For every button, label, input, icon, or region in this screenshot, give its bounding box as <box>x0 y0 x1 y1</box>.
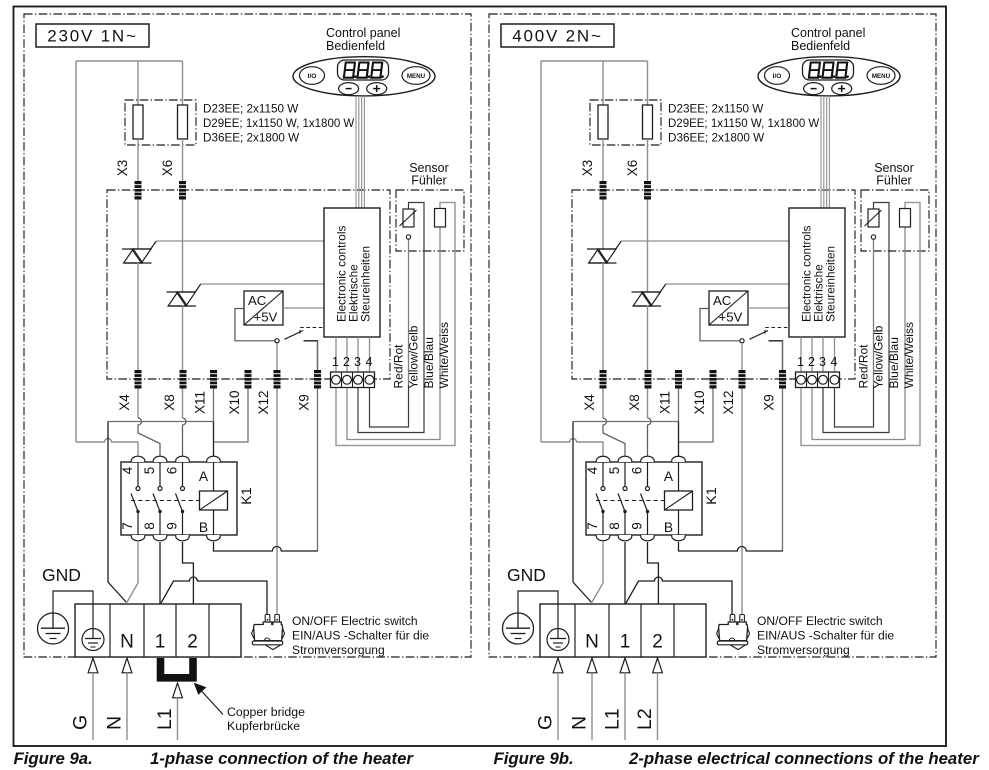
dashed control link to switch <box>300 328 334 338</box>
svg-text:GND: GND <box>42 565 81 585</box>
wire connector X9 down <box>782 341 784 551</box>
wire T2 gate to controls <box>666 283 789 285</box>
connector X9 <box>779 370 786 389</box>
wire terminal3 to sensor S1 (yellow) <box>358 203 424 433</box>
earth terminal symbol <box>82 604 104 651</box>
svg-text:1: 1 <box>332 355 339 369</box>
wire pin7 to terminal N <box>127 542 138 603</box>
triac T1 <box>122 248 151 250</box>
wire supply L2 <box>657 673 659 740</box>
wire pin9 to terminal 2 with hop <box>648 542 659 604</box>
connector X8 <box>645 370 652 389</box>
svg-text:2: 2 <box>808 355 815 369</box>
svg-text:9: 9 <box>165 522 180 530</box>
wire control bus X8-X11-X10 <box>573 421 679 423</box>
wire to element E2 <box>182 61 184 105</box>
wire U1 to strip terminal 1 <box>335 337 337 372</box>
wire T2 to connector X8 <box>647 306 649 419</box>
svg-text:3: 3 <box>354 355 361 369</box>
arrow supply N <box>122 658 132 673</box>
svg-text:2: 2 <box>652 632 663 653</box>
svg-text:1: 1 <box>797 355 804 369</box>
wire pin8 to terminal 1 <box>159 542 161 604</box>
svg-text:X9: X9 <box>762 394 777 411</box>
svg-text:Red/Rot: Red/Rot <box>857 344 871 389</box>
wire U1 to strip terminal 3 <box>822 337 824 372</box>
wire switch to connector X9 <box>769 341 783 371</box>
relay pin bump top 5 <box>153 456 167 462</box>
svg-text:X11: X11 <box>193 391 208 414</box>
wire left supply drop <box>540 61 542 442</box>
terminal circle 1 <box>797 375 806 384</box>
wire supply to relay pin 4 with hop <box>541 439 603 456</box>
svg-text:6: 6 <box>630 467 645 475</box>
relay actuation dashed link <box>131 500 200 502</box>
wire supply G <box>92 673 94 740</box>
svg-text:X12: X12 <box>721 390 736 414</box>
svg-text:ON/OFF Electric switch: ON/OFF Electric switch <box>292 614 418 628</box>
svg-text:N: N <box>120 632 134 653</box>
relay pin bump bottom B <box>672 535 686 541</box>
wire ground to terminal block <box>518 591 558 613</box>
svg-text:Figure 9a.: Figure 9a. <box>14 749 93 768</box>
terminal block dividers <box>575 604 674 657</box>
svg-text:D29EE; 1x1150 W, 1x1800 W: D29EE; 1x1150 W, 1x1800 W <box>668 118 819 130</box>
svg-text:+5V: +5V <box>254 310 278 325</box>
I/O button <box>300 67 325 85</box>
wire T2 gate to controls <box>201 283 324 285</box>
connector X6 <box>644 181 651 200</box>
wire terminal 1 to ON/OFF switch <box>161 577 267 615</box>
svg-text:X8: X8 <box>162 394 177 411</box>
wire terminal 1 to ON/OFF switch <box>626 577 732 615</box>
earth terminal symbol <box>547 604 569 651</box>
relay pin bump bottom 9 <box>176 535 190 541</box>
relay pin bump top A <box>207 456 221 462</box>
wire terminal3 to sensor S1 (yellow) <box>823 203 889 433</box>
svg-text:4: 4 <box>831 355 838 369</box>
svg-text:Stromversorgung: Stromversorgung <box>292 643 385 657</box>
terminal circle 2 <box>343 375 352 384</box>
heating element E1 <box>598 105 608 139</box>
wire pin8 to terminal 1 <box>624 542 626 604</box>
wire pin7 to terminal N <box>592 542 603 603</box>
display window <box>803 60 854 80</box>
minus button <box>339 83 359 95</box>
wire bus to relay coil A <box>213 422 215 457</box>
relay contact 3 <box>176 462 185 535</box>
control panel cable bundle <box>356 96 364 208</box>
svg-text:D29EE; 1x1150 W, 1x1800 W: D29EE; 1x1150 W, 1x1800 W <box>203 118 354 130</box>
svg-text:AC: AC <box>713 293 732 308</box>
svg-text:L1: L1 <box>602 708 624 730</box>
svg-text:ON/OFF Electric switch: ON/OFF Electric switch <box>757 614 883 628</box>
heater elements dash-dot box <box>125 100 196 145</box>
heating element E2 <box>643 105 653 139</box>
svg-text:X4: X4 <box>117 394 132 411</box>
wire U1 to strip terminal 3 <box>357 337 359 372</box>
svg-text:X3: X3 <box>115 160 130 177</box>
wire E1 to triac T1 <box>137 139 139 249</box>
connector X12 <box>274 370 281 389</box>
wire AC to switch node <box>235 309 275 341</box>
svg-text:5: 5 <box>142 467 157 475</box>
svg-text:8: 8 <box>142 522 157 530</box>
ground symbol <box>503 613 534 644</box>
arrow supply L1 <box>620 658 630 673</box>
terminal circle 3 <box>354 375 363 384</box>
connector X10 <box>710 370 717 389</box>
wire X10 to coil feed <box>214 389 248 443</box>
switch base plate <box>717 641 747 645</box>
sensor dash-dot box <box>396 190 464 251</box>
connector X6 <box>179 181 186 200</box>
arrow supply G <box>553 658 563 673</box>
svg-text:L1: L1 <box>154 708 176 730</box>
node switch junction <box>740 339 744 343</box>
connector X10 <box>245 370 252 389</box>
relay pin bump top 4 <box>596 456 610 462</box>
control panel bezel <box>758 57 900 96</box>
relay K1 box <box>121 462 237 535</box>
relay pin bump bottom 7 <box>596 535 610 541</box>
terminal block body <box>75 604 241 657</box>
electronic switch blade <box>285 331 304 340</box>
inner electronics dash-dot boundary <box>572 190 855 379</box>
svg-text:White/Weiss: White/Weiss <box>437 322 451 388</box>
7-segment digits 8.8.8 <box>344 63 359 79</box>
wire top supply bus <box>541 60 648 62</box>
switch rocker <box>731 645 746 650</box>
connector X11 <box>210 370 217 389</box>
electronic controls unit U1 <box>789 208 845 337</box>
svg-text:X4: X4 <box>582 394 597 411</box>
wire connector X9 down <box>317 341 319 551</box>
svg-text:Kupferbrücke: Kupferbrücke <box>227 719 300 733</box>
wire AC to controls <box>748 307 789 309</box>
wire supply G <box>557 673 559 740</box>
svg-text:Blue/Blau: Blue/Blau <box>887 337 901 388</box>
wire X8 hop and to relay pin 6 <box>183 418 187 456</box>
relay contact 2 <box>153 462 162 535</box>
relay pin bump top 6 <box>641 456 655 462</box>
wire to element E2 <box>647 61 649 105</box>
wire terminal2 to sensor S2 (blue) <box>347 227 440 440</box>
wire X8 hop and to relay pin 6 <box>648 418 652 456</box>
svg-text:Steureinheiten: Steureinheiten <box>824 246 838 322</box>
svg-text:G: G <box>70 715 92 730</box>
wire terminal4 to sensor S1 (red) <box>835 385 874 427</box>
relay contact 2 <box>618 462 627 535</box>
arrow supply L1 <box>173 683 183 698</box>
svg-text:X6: X6 <box>625 160 640 177</box>
relay pin bump bottom 9 <box>641 535 655 541</box>
wire X4 hop and to relay pin 5 <box>603 418 625 456</box>
MENU button <box>867 67 895 85</box>
wire E2 to triac T2 <box>182 139 184 292</box>
relay pin bump bottom 7 <box>131 535 145 541</box>
plus button <box>367 83 387 95</box>
svg-text:GND: GND <box>507 565 546 585</box>
triac T2 <box>167 291 196 293</box>
svg-text:Bedienfeld: Bedienfeld <box>791 39 850 53</box>
connector X11 <box>675 370 682 389</box>
arrow supply G <box>88 658 98 673</box>
copper bridge annotation arrow <box>201 691 223 715</box>
wire X10 to coil feed <box>679 389 713 443</box>
svg-text:Yellow/Gelb: Yellow/Gelb <box>407 325 421 388</box>
wire AC to controls <box>283 307 324 309</box>
svg-text:A: A <box>664 469 674 484</box>
svg-text:Figure 9b.: Figure 9b. <box>494 749 574 768</box>
svg-text:Copper bridge: Copper bridge <box>227 705 305 719</box>
svg-text:N: N <box>569 716 591 730</box>
sensor S1 thermistor <box>403 209 414 227</box>
svg-text:Control panel: Control panel <box>791 26 865 40</box>
connector X4 <box>600 370 607 389</box>
svg-text:Yellow/Gelb: Yellow/Gelb <box>872 325 886 388</box>
svg-text:B: B <box>664 520 673 535</box>
svg-text:X8: X8 <box>627 394 642 411</box>
wire X4 hop and to relay pin 5 <box>138 418 160 456</box>
svg-text:L2: L2 <box>634 708 656 730</box>
wire bus to relay coil A <box>678 422 680 457</box>
wire supply N <box>126 673 128 740</box>
svg-text:N: N <box>104 716 126 730</box>
relay K1 box <box>586 462 702 535</box>
terminal circle 3 <box>819 375 828 384</box>
wire terminal1 to sensor S2 (white) <box>801 203 920 446</box>
svg-text:X10: X10 <box>692 390 707 414</box>
wire coil B to X9 with hop <box>679 542 783 551</box>
7-segment digits 8.8.8 <box>809 63 824 79</box>
plus button <box>832 83 852 95</box>
svg-text:I/O: I/O <box>773 73 782 80</box>
heater elements dash-dot box <box>590 100 661 145</box>
svg-text:7: 7 <box>120 522 135 530</box>
svg-text:EIN/AUS -Schalter für die: EIN/AUS -Schalter für die <box>757 629 894 643</box>
terminal block body <box>540 604 706 657</box>
triac T1 <box>587 248 616 250</box>
svg-text:Steureinheiten: Steureinheiten <box>359 246 373 322</box>
terminal circle 4 <box>365 375 374 384</box>
control panel bezel <box>293 57 435 96</box>
svg-text:MENU: MENU <box>872 73 891 80</box>
wire T1 to connector X4 <box>602 263 604 418</box>
wire supply N <box>591 673 593 740</box>
wire X11 to bus <box>678 389 680 422</box>
arrow supply N <box>587 658 597 673</box>
wire control bus X8-X11-X10 <box>108 421 214 423</box>
relay contact 1 <box>131 462 140 535</box>
svg-text:X6: X6 <box>160 160 175 177</box>
wire U1 to strip terminal 4 <box>369 337 371 372</box>
relay pin bump bottom 8 <box>153 535 167 541</box>
wire U1 to strip terminal 2 <box>346 337 348 372</box>
relay pin bump top 5 <box>618 456 632 462</box>
terminal circle 2 <box>808 375 817 384</box>
svg-text:White/Weiss: White/Weiss <box>902 322 916 388</box>
svg-text:9: 9 <box>630 522 645 530</box>
wire X11 to bus <box>213 389 215 422</box>
svg-text:2: 2 <box>343 355 350 369</box>
connector X9 <box>314 370 321 389</box>
relay contact 1 <box>596 462 605 535</box>
connector X8 <box>180 370 187 389</box>
svg-text:D23EE; 2x1150 W: D23EE; 2x1150 W <box>203 103 298 116</box>
terminal strip dividers <box>342 372 364 388</box>
svg-text:4: 4 <box>585 466 600 474</box>
svg-text:1: 1 <box>620 632 631 653</box>
switch base plate <box>252 641 282 645</box>
copper bridge terminals 1-2 <box>161 658 194 678</box>
svg-text:2-phase electrical connections: 2-phase electrical connections of the he… <box>628 749 980 768</box>
svg-text:X11: X11 <box>658 391 673 414</box>
wire supply to relay pin 4 with hop <box>76 439 138 456</box>
sensor S2 <box>900 209 911 228</box>
heating element E1 <box>133 105 143 139</box>
relay coil <box>200 491 228 510</box>
wire terminal1 to sensor S2 (white) <box>336 203 455 446</box>
svg-text:D36EE; 2x1800 W: D36EE; 2x1800 W <box>668 132 764 145</box>
svg-text:D23EE; 2x1150 W: D23EE; 2x1150 W <box>668 103 763 116</box>
wire supply L1 <box>177 698 179 740</box>
minus button <box>804 83 824 95</box>
svg-text:B: B <box>199 520 208 535</box>
svg-text:7: 7 <box>585 522 600 530</box>
connector X4 <box>135 370 142 389</box>
wire coil B to X9 with hop <box>214 542 318 551</box>
wire T1 gate to controls <box>621 240 789 242</box>
wire E2 to triac T2 <box>647 139 649 292</box>
svg-text:Control panel: Control panel <box>326 26 400 40</box>
svg-text:Bedienfeld: Bedienfeld <box>326 39 385 53</box>
svg-text:400V 2N~: 400V 2N~ <box>512 27 603 46</box>
switch rocker <box>266 645 281 650</box>
svg-text:5: 5 <box>607 467 622 475</box>
sensor S2 <box>435 209 446 228</box>
connector X3 <box>600 181 607 200</box>
wire terminal4 to sensor S1 (red) <box>370 385 409 427</box>
wire terminal2 to sensor S2 (blue) <box>812 227 905 440</box>
svg-text:I/O: I/O <box>308 73 317 80</box>
terminal block dividers <box>110 604 209 657</box>
terminal circle 4 <box>830 375 839 384</box>
connector X12 <box>739 370 746 389</box>
svg-text:8: 8 <box>607 522 622 530</box>
svg-text:1: 1 <box>155 632 166 653</box>
wire node to connector X12 <box>741 343 743 615</box>
sensor S1 thermistor <box>868 209 879 227</box>
wire left supply drop <box>75 61 77 442</box>
panel b dash-dot border <box>489 14 936 657</box>
svg-text:Red/Rot: Red/Rot <box>392 344 406 389</box>
svg-text:1-phase connection of the heat: 1-phase connection of the heater <box>150 749 414 768</box>
wire U1 to strip terminal 1 <box>800 337 802 372</box>
heating element E2 <box>178 105 188 139</box>
svg-text:Fühler: Fühler <box>876 174 911 188</box>
connector X3 <box>135 181 142 200</box>
wire U1 to strip terminal 2 <box>811 337 813 372</box>
ON/OFF rocker switch icon <box>265 615 270 625</box>
terminal circle 1 <box>332 375 341 384</box>
control panel cable bundle <box>821 96 829 208</box>
wire switch to connector X9 <box>304 341 318 371</box>
arrow supply L2 <box>653 658 663 673</box>
inner electronics dash-dot boundary <box>107 190 390 379</box>
svg-text:K1: K1 <box>239 487 255 504</box>
svg-text:EIN/AUS -Schalter für die: EIN/AUS -Schalter für die <box>292 629 429 643</box>
AC +5V converter <box>244 291 283 325</box>
svg-text:AC: AC <box>248 293 267 308</box>
wire T1 gate to controls <box>156 240 324 242</box>
wire top supply bus <box>76 60 183 62</box>
terminal strip X13 body <box>331 372 375 388</box>
svg-text:2: 2 <box>187 632 198 653</box>
relay pin bump top 6 <box>176 456 190 462</box>
svg-text:3: 3 <box>819 355 826 369</box>
wire node to connector X12 <box>276 343 278 615</box>
triac T2 <box>632 291 661 293</box>
relay actuation dashed link <box>596 500 665 502</box>
wire to element E1 <box>602 61 604 105</box>
wire T2 to connector X8 <box>182 306 184 419</box>
wire coil feeds <box>213 462 215 491</box>
relay pin bump bottom B <box>207 535 221 541</box>
svg-text:X3: X3 <box>580 160 595 177</box>
svg-text:A: A <box>199 469 209 484</box>
electronic controls unit U1 <box>324 208 380 337</box>
wire pin9 to terminal 2 with hop <box>183 542 194 604</box>
svg-text:N: N <box>585 632 599 653</box>
svg-text:X9: X9 <box>297 394 312 411</box>
wire bus down to terminal N <box>108 422 127 603</box>
terminal strip dividers <box>807 372 829 388</box>
AC +5V converter <box>709 291 748 325</box>
svg-text:MENU: MENU <box>407 73 426 80</box>
ground symbol <box>38 613 69 644</box>
I/O button <box>765 67 790 85</box>
svg-text:D36EE; 2x1800 W: D36EE; 2x1800 W <box>203 132 299 145</box>
svg-text:G: G <box>535 715 557 730</box>
display window <box>338 60 389 80</box>
svg-text:4: 4 <box>120 466 135 474</box>
voltage title box 400V 2N~ <box>501 24 614 47</box>
wire T1 to connector X4 <box>137 263 139 418</box>
wire supply L1 <box>624 673 626 740</box>
terminal strip X13 body <box>796 372 840 388</box>
ON/OFF rocker switch icon <box>730 615 735 625</box>
svg-text:Blue/Blau: Blue/Blau <box>422 337 436 388</box>
wire to element E1 <box>137 61 139 105</box>
wire ground to terminal block <box>53 591 93 613</box>
relay pin bump top 4 <box>131 456 145 462</box>
wire E1 to triac T1 <box>602 139 604 249</box>
svg-text:Fühler: Fühler <box>411 174 446 188</box>
electronic switch blade <box>750 331 769 340</box>
wire AC to switch node <box>700 309 740 341</box>
wire coil feeds <box>678 462 680 491</box>
svg-text:230V 1N~: 230V 1N~ <box>47 27 138 46</box>
relay pin bump top A <box>672 456 686 462</box>
svg-text:Stromversorgung: Stromversorgung <box>757 643 850 657</box>
svg-text:K1: K1 <box>704 487 720 504</box>
svg-text:+5V: +5V <box>719 310 743 325</box>
svg-text:X12: X12 <box>256 390 271 414</box>
voltage title box 230V 1N~ <box>36 24 149 47</box>
node switch junction <box>275 339 279 343</box>
svg-text:6: 6 <box>165 467 180 475</box>
